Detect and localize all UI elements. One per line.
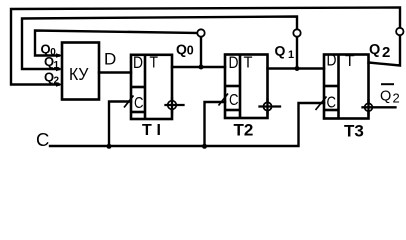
svg-text:Q: Q bbox=[275, 43, 286, 59]
svg-text:T: T bbox=[345, 53, 355, 70]
svg-text:1: 1 bbox=[288, 49, 294, 61]
svg-text:D: D bbox=[104, 50, 116, 69]
svg-text:Q: Q bbox=[380, 89, 391, 105]
svg-text:КУ: КУ bbox=[69, 64, 89, 84]
svg-text:C: C bbox=[36, 129, 49, 150]
svg-text:T3: T3 bbox=[344, 122, 364, 141]
svg-text:C: C bbox=[134, 95, 144, 112]
svg-text:2: 2 bbox=[393, 91, 400, 106]
svg-text:T: T bbox=[150, 55, 159, 72]
svg-text:D: D bbox=[229, 54, 239, 72]
svg-text:Q: Q bbox=[369, 42, 380, 58]
svg-text:T2: T2 bbox=[234, 121, 254, 140]
svg-text:C: C bbox=[327, 95, 337, 112]
svg-text:Q: Q bbox=[176, 41, 187, 57]
svg-text:2: 2 bbox=[54, 76, 60, 87]
svg-text:T: T bbox=[244, 55, 253, 72]
svg-text:C: C bbox=[229, 92, 239, 109]
svg-text:0: 0 bbox=[187, 44, 194, 58]
svg-text:D: D bbox=[133, 54, 143, 72]
svg-text:1: 1 bbox=[54, 60, 60, 71]
svg-text:2: 2 bbox=[382, 44, 390, 61]
svg-text:I: I bbox=[157, 122, 161, 139]
svg-text:T: T bbox=[142, 122, 152, 139]
svg-text:D: D bbox=[327, 52, 337, 70]
